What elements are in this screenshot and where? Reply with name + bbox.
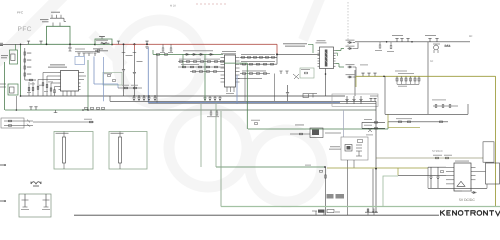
svg-text:PFC: PFC — [18, 26, 33, 33]
svg-text:PFC: PFC — [17, 11, 24, 15]
svg-text:M 28: M 28 — [170, 5, 176, 8]
svg-text:ST90DC: ST90DC — [432, 149, 443, 153]
svg-text:SF: SF — [430, 60, 434, 63]
svg-text:B56: B56 — [445, 44, 451, 48]
svg-text:MF: MF — [469, 35, 473, 38]
svg-text:5V DC/DC: 5V DC/DC — [459, 198, 475, 202]
